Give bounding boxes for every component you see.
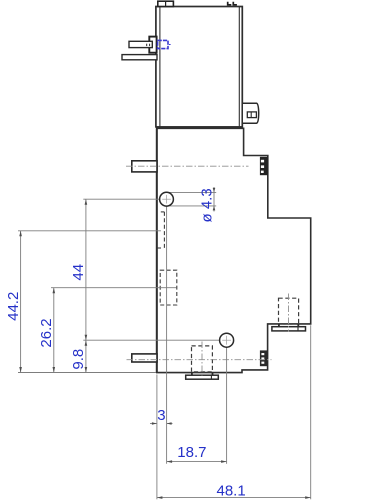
dimension 18.7	[167, 444, 227, 463]
lower housing outline	[156, 128, 311, 372]
upper left mounting tab	[132, 161, 157, 172]
hole 2 circle	[220, 333, 234, 347]
blue highlight box on screw	[158, 40, 171, 48]
extension line right edge	[310, 325, 312, 499]
svg-text:ø 4.3: ø 4.3	[198, 188, 215, 222]
svg-text:44.2: 44.2	[5, 292, 22, 321]
upper housing body	[156, 7, 242, 128]
dimension 3	[150, 407, 173, 425]
bottom center foot	[186, 373, 219, 380]
lower left mounting tab	[132, 354, 157, 362]
svg-text:9.8: 9.8	[70, 349, 87, 370]
svg-text:18.7: 18.7	[177, 444, 206, 461]
svg-text:26.2: 26.2	[38, 318, 55, 347]
dimension 44	[70, 199, 160, 372]
center line right slot vertical	[288, 294, 290, 332]
terminal busbar tab	[122, 55, 157, 60]
right side connector box	[243, 103, 259, 123]
center line upper	[126, 165, 249, 167]
dimension dia 4.3	[167, 187, 217, 222]
top right hook clips	[228, 2, 237, 5]
center line lower	[127, 359, 272, 361]
hidden slot left	[160, 270, 177, 305]
dimension 44.2	[5, 231, 161, 373]
dimension 26.2	[38, 288, 176, 373]
svg-text:3: 3	[157, 407, 165, 424]
step corner clip detail	[260, 157, 268, 175]
hidden slot bottom center	[192, 346, 213, 372]
bottom right foot	[272, 324, 306, 331]
dark clip detail bottom right corner	[260, 350, 268, 366]
svg-text:44: 44	[70, 264, 87, 281]
svg-text:48.1: 48.1	[216, 482, 245, 499]
dimension 48.1	[157, 482, 311, 499]
center line slot vertical	[201, 342, 203, 377]
extension line hole 1	[166, 206, 168, 464]
hole 1 circle	[160, 192, 174, 206]
top tab	[158, 1, 174, 6]
extension line left wall	[156, 375, 158, 500]
terminal screw	[129, 37, 157, 53]
dimension 9.8	[70, 340, 220, 372]
extension line hole 2	[226, 348, 228, 464]
hidden slot bottom right	[279, 298, 299, 324]
hidden contour below hole 1	[158, 212, 165, 248]
